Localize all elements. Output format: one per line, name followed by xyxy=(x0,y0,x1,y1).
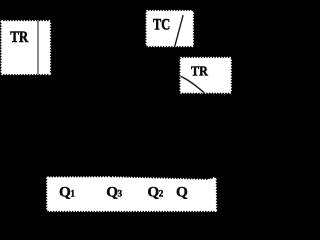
svg-text:TR: TR xyxy=(191,64,209,79)
box TR2 (right timer block) xyxy=(179,57,232,95)
contact bar of TR1 (gray vertical line) xyxy=(37,21,39,75)
bar of outputs Q (bottom strip) xyxy=(46,176,218,212)
box TR1 (left timer block) xyxy=(0,20,51,76)
box TC (timer contact block) xyxy=(145,10,194,48)
svg-text:Q: Q xyxy=(176,184,188,201)
curved contact of TR2 (arc line) xyxy=(181,76,205,93)
svg-text:TC: TC xyxy=(153,17,170,34)
switch lever of TC (diagonal line) xyxy=(175,15,183,46)
svg-text:TR: TR xyxy=(10,29,28,46)
